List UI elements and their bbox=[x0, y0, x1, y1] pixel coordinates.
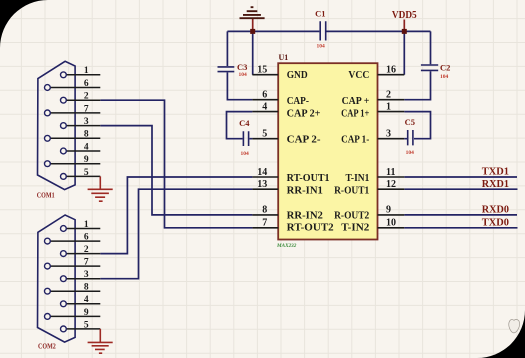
svg-text:TXD0: TXD0 bbox=[482, 218, 509, 229]
svg-text:104: 104 bbox=[317, 44, 326, 50]
svg-text:104: 104 bbox=[241, 151, 250, 157]
svg-text:RXD0: RXD0 bbox=[482, 205, 509, 216]
svg-text:C5: C5 bbox=[405, 117, 415, 127]
svg-text:11: 11 bbox=[386, 167, 395, 178]
svg-text:VDD5: VDD5 bbox=[392, 10, 417, 21]
svg-text:104: 104 bbox=[440, 74, 449, 80]
svg-text:COM1: COM1 bbox=[37, 191, 55, 199]
svg-text:CAP +: CAP + bbox=[342, 96, 370, 107]
svg-text:8: 8 bbox=[262, 205, 267, 216]
svg-text:RT-OUT2: RT-OUT2 bbox=[287, 223, 334, 234]
svg-text:C1: C1 bbox=[315, 9, 325, 19]
svg-text:7: 7 bbox=[262, 218, 267, 229]
svg-text:6: 6 bbox=[262, 90, 267, 101]
svg-text:4: 4 bbox=[84, 295, 89, 305]
svg-text:15: 15 bbox=[257, 65, 267, 76]
svg-text:CAP 2-: CAP 2- bbox=[287, 135, 321, 146]
svg-text:C3: C3 bbox=[237, 62, 247, 72]
svg-text:R-OUT2: R-OUT2 bbox=[334, 211, 369, 222]
svg-text:U1: U1 bbox=[279, 53, 289, 62]
svg-text:16: 16 bbox=[386, 65, 396, 76]
svg-text:7: 7 bbox=[84, 258, 89, 268]
svg-text:RR-IN1: RR-IN1 bbox=[287, 185, 323, 196]
svg-text:3: 3 bbox=[386, 129, 391, 140]
svg-text:RXD1: RXD1 bbox=[482, 179, 509, 190]
svg-text:2: 2 bbox=[386, 90, 391, 101]
svg-text:RR-IN2: RR-IN2 bbox=[287, 211, 323, 222]
svg-text:5: 5 bbox=[262, 129, 267, 140]
svg-text:6: 6 bbox=[84, 232, 89, 242]
svg-text:CAP 2+: CAP 2+ bbox=[287, 109, 321, 120]
svg-text:104: 104 bbox=[239, 72, 248, 78]
svg-text:CAP 1+: CAP 1+ bbox=[341, 109, 369, 120]
svg-text:T-IN1: T-IN1 bbox=[346, 173, 370, 184]
svg-text:10: 10 bbox=[386, 218, 396, 229]
svg-text:7: 7 bbox=[84, 104, 89, 114]
svg-text:3: 3 bbox=[84, 117, 89, 127]
svg-text:13: 13 bbox=[257, 179, 267, 190]
svg-text:104: 104 bbox=[406, 150, 415, 156]
svg-text:CAP-: CAP- bbox=[287, 96, 309, 107]
svg-text:2: 2 bbox=[84, 245, 89, 255]
svg-text:9: 9 bbox=[84, 155, 89, 165]
svg-text:TXD1: TXD1 bbox=[482, 167, 509, 178]
svg-text:CAP 1-: CAP 1- bbox=[341, 135, 369, 146]
svg-text:5: 5 bbox=[84, 168, 89, 178]
svg-text:4: 4 bbox=[84, 142, 89, 152]
svg-text:4: 4 bbox=[262, 101, 267, 112]
svg-text:MAX232: MAX232 bbox=[276, 243, 297, 249]
svg-text:C4: C4 bbox=[239, 118, 250, 128]
svg-text:VCC: VCC bbox=[348, 70, 369, 81]
svg-text:9: 9 bbox=[84, 308, 89, 318]
svg-text:3: 3 bbox=[84, 270, 89, 280]
svg-text:R-OUT1: R-OUT1 bbox=[334, 185, 369, 196]
svg-text:GND: GND bbox=[287, 70, 308, 81]
svg-text:9: 9 bbox=[386, 205, 391, 216]
svg-text:14: 14 bbox=[257, 167, 267, 178]
svg-text:6: 6 bbox=[84, 79, 89, 89]
svg-text:8: 8 bbox=[84, 130, 89, 140]
svg-text:5: 5 bbox=[84, 320, 89, 330]
svg-text:T-IN2: T-IN2 bbox=[341, 223, 369, 234]
svg-text:RT-OUT1: RT-OUT1 bbox=[287, 173, 330, 184]
svg-text:12: 12 bbox=[386, 179, 396, 190]
svg-text:COM2: COM2 bbox=[38, 342, 56, 350]
svg-text:C2: C2 bbox=[440, 62, 450, 72]
svg-text:1: 1 bbox=[84, 66, 89, 76]
svg-text:1: 1 bbox=[386, 101, 391, 112]
svg-text:2: 2 bbox=[84, 92, 89, 102]
svg-text:1: 1 bbox=[84, 220, 89, 230]
svg-text:8: 8 bbox=[84, 283, 89, 293]
